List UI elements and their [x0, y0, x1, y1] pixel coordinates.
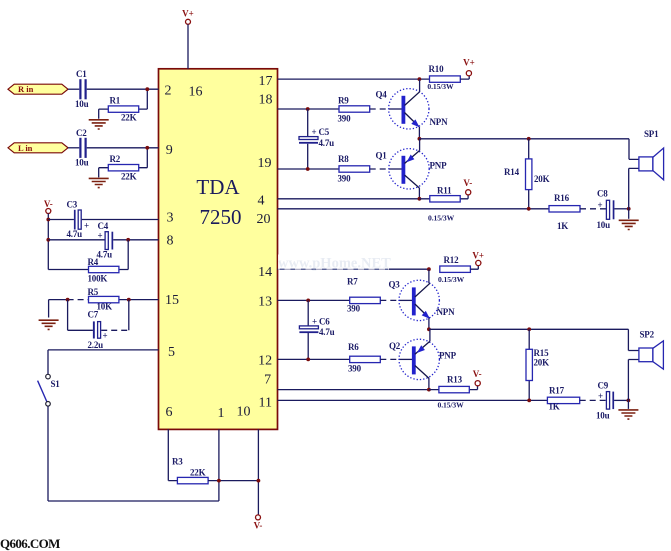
svg-text:R8: R8: [338, 154, 349, 164]
node junction R3/pin1: [217, 479, 221, 483]
wire V- vertical bus: [47, 214, 49, 270]
capacitor C3: [67, 199, 90, 239]
svg-text:18: 18: [259, 93, 273, 108]
svg-text:20: 20: [257, 212, 271, 227]
svg-text:+: +: [103, 330, 108, 340]
capacitor C5: [299, 109, 334, 169]
wire Lin to C2: [68, 147, 79, 149]
svg-text:1: 1: [218, 406, 225, 421]
resistor R11: [419, 185, 468, 222]
svg-text:Q1: Q1: [376, 150, 388, 160]
wire C4 to pin 8: [113, 239, 158, 241]
svg-text:SP2: SP2: [640, 329, 655, 339]
node junction V- pin3: [46, 218, 50, 222]
wire pin 18 row: [278, 108, 340, 110]
resistor R7: [347, 276, 380, 313]
transistor Q2 PNP: [389, 329, 457, 389]
capacitor C9: [596, 380, 614, 420]
svg-text:R6: R6: [348, 342, 359, 352]
wire C9 to ground node: [614, 399, 628, 401]
wire pin 20 row: [278, 208, 550, 210]
svg-text:C7: C7: [88, 310, 99, 320]
svg-text:10: 10: [237, 405, 251, 420]
svg-text:390: 390: [348, 363, 362, 373]
svg-text:10u: 10u: [75, 158, 89, 168]
svg-text:3: 3: [167, 210, 174, 225]
svg-text:2.2u: 2.2u: [88, 340, 104, 350]
svg-text:6: 6: [166, 405, 173, 420]
node junction C9/SP2/ground: [627, 399, 631, 403]
svg-text:+: +: [84, 220, 89, 230]
wire pin 13 row: [278, 299, 350, 301]
svg-text:22K: 22K: [121, 113, 137, 123]
svg-text:R2: R2: [110, 154, 121, 164]
svg-text:R4: R4: [88, 257, 99, 267]
svg-text:19: 19: [258, 156, 272, 171]
svg-text:20K: 20K: [534, 174, 550, 184]
wire R7 to Q3 base: [380, 299, 399, 301]
resistor R14: [504, 139, 550, 209]
wire pin 5 to switch: [48, 350, 159, 374]
resistor R5: [49, 287, 159, 312]
wire pin 6 stub: [168, 429, 177, 480]
svg-text:2: 2: [165, 83, 172, 98]
transistor Q3 NPN: [389, 269, 456, 329]
op-amp U1 TDA7250 IC body: [159, 69, 278, 430]
ground under R2: [89, 178, 109, 187]
resistor R4: [48, 257, 128, 283]
resistor R12: [438, 255, 478, 284]
node R in port: [8, 84, 68, 94]
svg-text:S1: S1: [51, 379, 61, 389]
node junction R5 left: [66, 298, 70, 302]
capacitor C2: [75, 128, 89, 168]
wire C8 to ground node: [614, 208, 628, 210]
svg-text:4.7u: 4.7u: [319, 138, 335, 148]
node junction R3/pin10: [257, 479, 261, 483]
svg-text:V-: V-: [44, 199, 53, 209]
svg-text:5: 5: [168, 345, 175, 360]
svg-text:12: 12: [258, 353, 272, 368]
svg-text:4.7u: 4.7u: [319, 327, 335, 337]
power terminal V+ at R10: [463, 58, 475, 76]
node junction pin12/C6: [306, 358, 310, 362]
svg-text:22K: 22K: [190, 467, 206, 477]
svg-text:20K: 20K: [534, 357, 550, 367]
node junction R15 top: [527, 327, 531, 331]
svg-text:14: 14: [258, 265, 272, 280]
svg-text:R1: R1: [110, 95, 121, 105]
svg-text:0.15/3W: 0.15/3W: [438, 275, 465, 284]
svg-text:C1: C1: [76, 69, 87, 79]
svg-text:0.15/3W: 0.15/3W: [438, 400, 465, 409]
switch S1: [38, 374, 61, 406]
speaker SP2: [628, 329, 663, 400]
svg-text:R in: R in: [18, 84, 34, 94]
svg-text:C3: C3: [67, 199, 78, 209]
wire pin 1 stub: [218, 429, 220, 480]
wire pin 8 row left: [48, 239, 105, 241]
svg-text:SP1: SP1: [644, 129, 659, 139]
svg-text:+ C5: + C5: [312, 127, 330, 137]
node junction R14 bottom: [527, 207, 531, 211]
wire R17 to C9: [580, 399, 606, 401]
svg-text:390: 390: [347, 303, 361, 313]
wire mid output net upper: [419, 139, 639, 160]
svg-text:R5: R5: [88, 287, 99, 297]
resistor R9: [338, 95, 370, 123]
node junction R15 bottom: [527, 399, 531, 403]
svg-text:V+: V+: [463, 58, 475, 68]
wire pin 7 row: [278, 389, 429, 391]
svg-text:R10: R10: [429, 64, 445, 74]
svg-text:R17: R17: [549, 385, 565, 395]
wire V+ to pin 16: [187, 24, 189, 69]
resistor R3: [172, 457, 258, 484]
svg-text:Q606.COM: Q606.COM: [0, 536, 60, 551]
svg-text:22K: 22K: [121, 172, 137, 182]
node L in port: [8, 143, 68, 153]
wire Rin to C1: [68, 88, 79, 90]
svg-text:V-: V-: [463, 178, 472, 188]
node junction pin18/C5: [306, 107, 310, 111]
resistor R1: [99, 89, 148, 123]
svg-text:1K: 1K: [549, 402, 560, 412]
node junction pin17/R10/Q4: [418, 77, 422, 81]
svg-text:R16: R16: [554, 193, 570, 203]
svg-text:R14: R14: [504, 167, 520, 177]
power terminal V+ top: [182, 9, 194, 25]
svg-text:100K: 100K: [88, 273, 108, 283]
svg-text:16: 16: [189, 84, 203, 99]
svg-text:V-: V-: [254, 521, 263, 531]
svg-text:11: 11: [259, 395, 272, 410]
svg-text:R3: R3: [172, 457, 183, 467]
ground under SP1: [619, 209, 639, 230]
watermark phome: [278, 255, 391, 272]
capacitor C8: [597, 188, 615, 230]
svg-text:9: 9: [166, 143, 173, 158]
wire C3 to pin 3: [82, 219, 159, 221]
resistor R16: [549, 193, 580, 231]
resistor R10: [427, 64, 469, 91]
svg-text:390: 390: [338, 114, 352, 124]
ground under R1: [89, 120, 109, 129]
node junction R14 top: [527, 137, 531, 141]
node junction pin13/C6: [306, 299, 310, 303]
node junction Q3 emitter / Q2 emitter: [427, 327, 431, 331]
resistor R8: [338, 154, 370, 183]
svg-text:4: 4: [258, 194, 265, 209]
node junction Q2 collector / pin7 / R13: [427, 388, 431, 392]
wire pin 11 row: [278, 399, 548, 401]
svg-text:NPN: NPN: [430, 117, 449, 127]
svg-text:0.15/3W: 0.15/3W: [428, 213, 455, 222]
svg-text:PNP: PNP: [439, 350, 457, 360]
speaker SP1: [629, 129, 664, 209]
svg-text:10u: 10u: [75, 99, 89, 109]
svg-text:13: 13: [258, 294, 272, 309]
svg-text:PNP: PNP: [430, 160, 448, 170]
node junction Q1 collector / pin4 / R11: [418, 197, 422, 201]
svg-text:4.7u: 4.7u: [67, 229, 83, 239]
svg-text:R9: R9: [338, 95, 349, 105]
wire pin 17 row: [278, 78, 430, 80]
node junction R5 right / pin15: [127, 298, 131, 302]
resistor R13: [429, 375, 478, 410]
wire R16 to C8: [580, 208, 606, 210]
power terminal V- at R13: [473, 369, 482, 386]
svg-text:R7: R7: [347, 276, 358, 286]
power terminal V- at R11: [463, 178, 472, 195]
capacitor C1: [75, 69, 89, 109]
svg-text:NPN: NPN: [437, 307, 456, 317]
resistor R2: [99, 148, 148, 182]
svg-text:+: +: [598, 391, 603, 401]
svg-text:R11: R11: [437, 185, 452, 195]
svg-text:V+: V+: [182, 9, 194, 19]
svg-text:C2: C2: [76, 128, 87, 138]
resistor R17: [547, 385, 579, 411]
svg-text:R15: R15: [534, 348, 550, 358]
node junction pin19/C5: [306, 167, 310, 171]
wire switch to bottom net: [48, 406, 219, 501]
svg-text:+ C6: + C6: [312, 317, 330, 327]
svg-text:Q3: Q3: [389, 279, 401, 289]
svg-text:C4: C4: [98, 221, 109, 231]
wire mid output net lower: [429, 329, 639, 350]
svg-text:15: 15: [165, 293, 179, 308]
svg-text:+: +: [598, 200, 603, 210]
wire junction down to R4: [127, 240, 129, 270]
svg-text:8: 8: [167, 234, 174, 249]
svg-text:R12: R12: [444, 255, 460, 265]
svg-text:R13: R13: [447, 375, 463, 385]
node junction C1/R1/pin2: [145, 87, 149, 91]
ground under SP2: [618, 400, 638, 419]
svg-text:TDA: TDA: [196, 175, 240, 199]
svg-text:390: 390: [338, 174, 352, 184]
svg-text:V+: V+: [472, 251, 484, 261]
transistor Q1 PNP: [376, 139, 448, 199]
capacitor C4: [97, 221, 114, 259]
svg-text:4.7u: 4.7u: [97, 249, 113, 259]
wire R6 to Q2 base: [380, 358, 399, 360]
svg-text:10K: 10K: [97, 302, 113, 312]
svg-text:C9: C9: [598, 380, 609, 390]
svg-text:+: +: [98, 231, 103, 241]
wire C2 to pin 9: [87, 147, 159, 149]
wire R8 to Q1 base: [370, 168, 389, 170]
power terminal V- bottom: [254, 515, 263, 531]
wire pin 14 row: [278, 268, 429, 270]
transistor Q4 NPN: [376, 79, 449, 139]
svg-text:0.15/3W: 0.15/3W: [427, 82, 454, 91]
svg-text:7250: 7250: [200, 205, 242, 229]
svg-text:10u: 10u: [597, 220, 611, 230]
ground at R5: [39, 300, 59, 330]
node junction V- pin8: [46, 238, 50, 242]
wire R9 to Q4 base: [370, 108, 389, 110]
wire pin 10 stub: [257, 429, 259, 514]
svg-text:Q4: Q4: [376, 89, 388, 99]
resistor R6: [348, 342, 380, 373]
wire pin 19 row: [278, 168, 340, 170]
node junction pin14/R12/Q3: [427, 267, 431, 271]
node junction C8/SP1/ground: [627, 207, 631, 211]
wire pin 3 row left: [48, 219, 74, 221]
power terminal V+ at R12: [472, 251, 484, 266]
svg-text:V-: V-: [473, 369, 482, 379]
svg-text:1K: 1K: [557, 221, 568, 231]
node junction C2/R2/pin9: [145, 146, 149, 150]
wire pin 4 row: [278, 198, 420, 200]
wire C1 to pin 2: [87, 88, 159, 90]
svg-text:17: 17: [259, 74, 273, 89]
svg-text:C8: C8: [597, 188, 608, 198]
capacitor C6: [299, 300, 334, 359]
wire pin 12 row: [278, 358, 350, 360]
capacitor C7: [68, 300, 129, 350]
node junction pin8/R4: [126, 238, 130, 242]
svg-text:10u: 10u: [596, 410, 610, 420]
svg-text:L in: L in: [18, 143, 33, 153]
svg-text:Q2: Q2: [389, 341, 401, 351]
power terminal V- left: [44, 199, 53, 214]
node junction Q4 emitter / Q1 emitter: [418, 137, 422, 141]
resistor R15: [526, 329, 549, 400]
svg-text:7: 7: [264, 372, 271, 387]
